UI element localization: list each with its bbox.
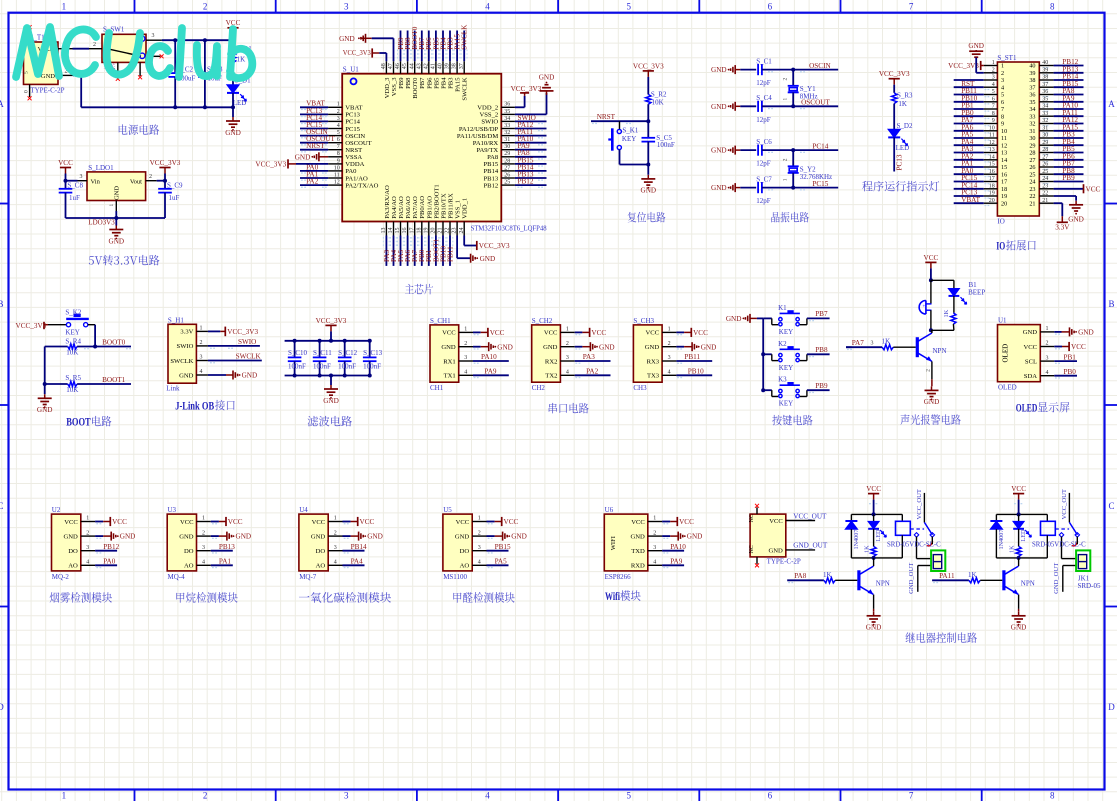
svg-text:BOOT: BOOT [66,417,91,429]
svg-text:VCC: VCC [312,519,326,526]
pin U1.35 VSS_2 [501,113,515,115]
pin U1.44 BOOT0 [414,61,416,73]
wire+net SWIO [515,120,547,122]
svg-text:PB2/BOOT1: PB2/BOOT1 [433,184,440,218]
capacitor S_C11 100nF [319,341,321,358]
wire+net PA1 left [954,166,984,168]
svg-text:12: 12 [1001,142,1007,149]
svg-text:2: 2 [992,67,995,73]
wire to net OSCOUT [762,105,838,107]
resistor 1K relay [873,529,875,547]
svg-text:OLED: OLED [1016,403,1038,415]
svg-text:15: 15 [395,228,401,234]
power GND for C1 [734,65,736,74]
svg-text:1: 1 [1046,326,1049,332]
svg-text:PC14: PC14 [812,142,828,150]
svg-text:2: 2 [464,341,467,347]
svg-text:9: 9 [1001,121,1004,128]
relay top rail [851,513,902,515]
pin ST1.14 [984,159,998,161]
svg-text:PB10: PB10 [688,368,704,376]
svg-text:3: 3 [344,791,349,801]
svg-text:21: 21 [1042,198,1048,204]
CH3 VCC port [676,331,684,333]
svg-text:30: 30 [1029,135,1035,142]
svg-text:GND: GND [441,344,456,351]
pin ST1.18 [984,188,998,190]
U2 net PB12 [95,550,117,552]
svg-text:VCC_3V3: VCC_3V3 [316,317,347,325]
base chain PA11 [932,579,969,581]
wire U1 pin36 to VCC_3V3 [515,106,525,108]
svg-text:BOOT1: BOOT1 [102,376,126,384]
wire+net BOOT0 [414,31,416,62]
caption 滤波电路 [308,416,352,427]
svg-text:1: 1 [782,178,788,181]
svg-text:GND: GND [1078,329,1094,337]
key K3 [763,389,772,391]
svg-text:1: 1 [62,791,67,801]
relay coil [901,514,903,521]
svg-text:PB7: PB7 [419,77,426,89]
ground GND boot [44,384,46,394]
svg-text:LDO3V3: LDO3V3 [88,219,115,227]
svg-text:VCC_3V3: VCC_3V3 [948,62,979,70]
OLED SDA -> PB0 [1054,375,1077,377]
svg-text:SRD-05VDC-SL-C: SRD-05VDC-SL-C [1032,541,1086,548]
svg-text:PA12/USB/DP: PA12/USB/DP [459,126,499,133]
svg-text:S_C1: S_C1 [756,58,772,66]
svg-text:10: 10 [1001,128,1007,135]
wire VCC rail top [162,39,233,41]
svg-text:KEY: KEY [779,328,793,336]
pin U1.22 PB11/RX [449,222,451,236]
pin U1.37 SWCLK [463,61,465,73]
wire+net PB9 [400,31,402,62]
svg-text:VSS_3: VSS_3 [391,77,398,96]
svg-text:PB12: PB12 [518,178,534,186]
power GND for C4 [734,102,736,111]
svg-text:VBAT: VBAT [961,196,980,204]
svg-text:S_C6: S_C6 [756,138,772,146]
pin ST1.12 [984,144,998,146]
svg-text:VCC_3V3: VCC_3V3 [227,328,258,336]
pin U1.27 PB14 [501,170,515,172]
svg-text:GND: GND [1068,216,1084,224]
svg-text:SRD-05: SRD-05 [1078,582,1101,590]
svg-text:NC: NC [749,545,755,553]
caption 晶振电路 [771,212,808,223]
wire+net PB14 [515,170,547,172]
wire+net PA5 left [954,137,984,139]
capacitor S_C13 100nF [369,341,371,358]
connector TYPE-C-2P relay input [750,514,786,557]
svg-text:VCC_3V3: VCC_3V3 [343,49,371,57]
svg-text:2: 2 [1001,70,1004,77]
wire+net PA4 [393,236,395,266]
svg-text:PA3: PA3 [583,353,596,361]
pin ST1.35 [1039,101,1053,103]
svg-text:SCL: SCL [1025,358,1037,365]
relay bottom rail [996,557,1047,559]
svg-text:PC13: PC13 [345,112,360,119]
svg-text:22: 22 [1042,191,1048,197]
wire+net PB10 left [954,101,984,103]
svg-text:3: 3 [668,355,671,361]
pin U1.38 PA15 [456,61,458,73]
pin ST1.26 [1039,166,1053,168]
wire+net PB1 left [954,108,984,110]
capacitor C1 12pF [740,69,756,71]
svg-text:3: 3 [1046,355,1049,361]
svg-text:10K: 10K [66,386,78,394]
buzzer B1 BEEP [925,301,927,315]
wire+net BOOT1 [435,236,437,266]
wire+net PA2 left [954,159,984,161]
pin U1.15 PA5/AO [400,222,402,236]
svg-text:U3: U3 [168,506,177,514]
svg-text:GND: GND [641,187,657,195]
svg-text:3: 3 [653,545,656,551]
svg-text:D: D [1108,702,1115,712]
svg-text:1K: 1K [863,545,870,553]
svg-text:100nF: 100nF [657,141,675,149]
svg-text:GND: GND [480,255,496,263]
resistor 1K alarm vertical [953,296,955,313]
svg-text:S_CH1: S_CH1 [430,317,451,325]
caption 电源电路 [119,124,159,135]
svg-text:6: 6 [768,2,773,12]
power VCC IO pin23 [1054,188,1084,190]
caption 一氧化碳检测模块 [299,592,391,603]
svg-text:VCC_3V3: VCC_3V3 [150,159,181,167]
SW1 bottom pins unconnected [117,62,119,77]
svg-text:+: + [923,304,926,309]
module U5 MS1100 [443,514,472,571]
pin U1.12 PA2/TX/AO [328,184,342,186]
wire+net PB10 [442,236,444,266]
svg-text:S_U1: S_U1 [343,66,359,74]
svg-text:PB12: PB12 [103,543,119,551]
resistor 1K relay [1018,529,1020,547]
svg-text:S_K2: S_K2 [65,308,81,316]
svg-text:VCC: VCC [1023,344,1037,351]
svg-text:VCC: VCC [58,159,73,167]
svg-text:4: 4 [202,560,205,566]
svg-text:PB8: PB8 [815,346,828,354]
svg-text:GND: GND [497,343,513,351]
svg-text:6: 6 [1001,99,1004,106]
wire U1 pin23 VSS_1 to GND [456,236,458,259]
svg-text:VCC: VCC [866,485,881,493]
watermark MCUclub [16,27,252,78]
svg-text:PB10/TX: PB10/TX [441,193,448,219]
buzzer to lower node [930,310,932,330]
module U3 MQ-4 [167,514,196,571]
svg-text:26: 26 [504,172,510,178]
svg-text:100nF: 100nF [338,363,356,371]
power VCC relay [868,493,879,495]
pin ST1.10 [984,130,998,132]
svg-text:VCC: VCC [456,519,470,526]
U4 net PA4 [343,564,365,566]
wire+net PB11 left [954,94,984,96]
svg-text:4: 4 [485,2,490,12]
svg-text:36: 36 [504,102,510,108]
svg-text:32: 32 [504,130,510,136]
wire+net PC13 left [954,195,984,197]
capacitor S_C2 100uF [174,40,176,73]
svg-text:OSCIN: OSCIN [345,133,365,140]
OLED GND port [1054,331,1061,333]
svg-text:PA5: PA5 [495,558,508,566]
resistor S_R2 10K [646,94,651,104]
wire+net VBAT [300,106,328,108]
pin ST1.23 [1039,188,1053,190]
power gnd at U1 pin8 [318,152,320,161]
pin ST1.27 [1039,159,1053,161]
power GND right of chip [546,91,548,95]
pin U1.39 PB3 [449,61,451,73]
wire+net PC14 [300,120,328,122]
svg-text:ESP8266: ESP8266 [605,573,632,581]
svg-text:23: 23 [1042,183,1048,189]
svg-text:16: 16 [1001,171,1007,178]
svg-text:18: 18 [989,183,995,189]
svg-text:PB13: PB13 [484,175,499,182]
svg-text:S_K1: S_K1 [622,127,638,135]
svg-text:4: 4 [334,560,337,566]
capacitor S_C3 10uF [204,40,206,73]
svg-text:GND: GND [711,147,727,155]
svg-text:1: 1 [1001,63,1004,70]
svg-text:3: 3 [344,2,349,12]
pin ST1.1 [984,65,998,67]
power 3.3V IO pin21 [1054,202,1063,204]
svg-text:S_R4: S_R4 [65,337,81,345]
svg-text:12pF: 12pF [756,197,771,205]
svg-text:GND: GND [645,344,660,351]
svg-text:LED: LED [1020,529,1027,542]
relay switch common VCC_OUT [1068,493,1070,523]
svg-text:LED: LED [875,529,882,542]
power VCC_3V3 reset [643,70,654,72]
power VCC_3V3 indicator [889,78,900,80]
pin ST1.29 [1039,144,1053,146]
pin U1.46 PB9 [400,61,402,73]
svg-text:24: 24 [1042,176,1048,182]
net label NRST + wire [591,120,648,122]
svg-text:GND: GND [924,398,940,406]
svg-text:1: 1 [464,327,467,333]
wire+net PA8 right [1054,94,1084,96]
wire+net RST left [954,86,984,88]
svg-text:14: 14 [388,228,394,234]
svg-text:21: 21 [1029,200,1035,207]
svg-text:1: 1 [992,60,995,66]
svg-text:14: 14 [989,154,995,160]
svg-text:16: 16 [989,169,995,175]
pin U1.40 PB4 [442,61,444,73]
svg-text:VCC_3V3: VCC_3V3 [511,85,542,93]
collector wire [873,558,875,566]
wire+net PB3 [449,31,451,62]
svg-text:MS1100: MS1100 [443,573,467,581]
svg-text:PC14: PC14 [345,119,360,126]
svg-text:1: 1 [782,98,788,101]
svg-text:U6: U6 [605,506,614,514]
svg-text:U5: U5 [443,506,452,514]
wire+net PB12 [515,184,547,186]
wire+net PA6 [407,236,409,266]
svg-text:VCC: VCC [64,519,78,526]
svg-text:VDD_1: VDD_1 [462,198,469,219]
wire+net PA11 right [1054,115,1084,117]
U6 net PA9 [662,564,684,566]
power VCC_3V3 at U1 pin9 [287,159,289,168]
svg-text:3: 3 [334,545,337,551]
svg-text:15: 15 [1001,164,1007,171]
svg-text:PA2/TX/AO: PA2/TX/AO [345,182,378,189]
transistor NPN alarm [916,337,919,357]
svg-text:PB4: PB4 [441,77,448,89]
wire U1 pin35 to GND [515,113,547,115]
svg-text:1: 1 [334,516,337,522]
svg-text:KEY: KEY [622,135,636,143]
svg-text:44: 44 [409,63,415,69]
svg-text:34: 34 [504,116,510,122]
pin ST1.20 [984,202,998,204]
pin ST1.37 [1039,86,1053,88]
svg-text:AO: AO [316,563,326,570]
svg-text:5: 5 [992,89,995,95]
svg-text:VCC_3V3: VCC_3V3 [879,70,910,78]
key S_K2 [48,324,66,326]
svg-text:39: 39 [445,63,451,69]
pin U1.6 OSCOUT [328,142,342,144]
wire U1 pin24 VDD_1 to VCC_3V3 [463,236,465,246]
svg-text:GND_OUT: GND_OUT [1053,563,1060,594]
svg-text:4: 4 [992,82,995,88]
pin U1.21 PB10/TX [442,222,444,236]
CH3 TX3 -> PB10 [676,374,712,376]
svg-text:17: 17 [1001,179,1007,186]
green terminal block [931,550,945,571]
svg-text:PB0/AO: PB0/AO [419,196,426,219]
svg-text:4: 4 [1001,85,1004,92]
collector wire [1018,558,1020,566]
svg-text:BOOT0: BOOT0 [412,77,419,99]
svg-text:VSS_2: VSS_2 [479,112,498,119]
pin U1.34 SWIO [501,120,515,122]
OLED SCL -> PB1 [1054,360,1077,362]
wire+net PA0 [300,170,328,172]
svg-text:S_C9: S_C9 [167,182,183,190]
svg-text:TXD: TXD [631,548,645,555]
svg-text:GND: GND [109,237,125,245]
pin U1.18 PB0/AO [421,222,423,236]
wire+net PB13 [515,177,547,179]
svg-text:RXD: RXD [631,563,645,570]
pin U1.1 VBAT [328,106,342,108]
svg-text:WIFI: WIFI [610,536,617,550]
svg-text:27: 27 [1042,154,1048,160]
svg-text:PB9: PB9 [398,77,405,89]
svg-text:GND: GND [242,372,258,380]
svg-text:33: 33 [1042,111,1048,117]
wire+net PB13 right [1054,72,1084,74]
svg-text:MQ-4: MQ-4 [168,573,186,581]
svg-text:STM32F103C8T6_LQFP48: STM32F103C8T6_LQFP48 [471,225,547,233]
svg-text:7: 7 [909,2,914,12]
svg-text:42: 42 [423,63,429,69]
svg-text:DO: DO [184,548,194,555]
svg-text:43: 43 [416,63,422,69]
svg-text:SDA: SDA [1024,373,1037,380]
module U4 MQ-7 [299,514,328,571]
svg-text:33: 33 [1029,114,1035,121]
power GND keys [749,314,751,323]
base chain PA8 [787,579,824,581]
svg-text:3.3V: 3.3V [180,329,193,336]
relay NO contact stub [931,537,933,545]
caption 复位电路 [628,212,666,223]
svg-text:PA9: PA9 [484,368,497,376]
relay NC contact to terminal [916,537,918,559]
pin U1.11 PA1/AO [328,177,342,179]
wire+net PB4 [442,31,444,62]
svg-text:1: 1 [478,516,481,522]
U6 VCC port [662,521,670,523]
svg-text:31: 31 [1042,125,1048,131]
svg-text:4: 4 [86,560,89,566]
wire+net PB15 right [1054,86,1084,88]
resistor S_R4 10K [45,346,68,348]
svg-text:4: 4 [653,560,656,566]
wire+net PA12 [515,128,547,130]
U3 GND port [211,535,219,537]
svg-text:29: 29 [504,151,510,157]
pin ST1.33 [1039,115,1053,117]
pin ST1.36 [1039,94,1053,96]
svg-text:8: 8 [1001,114,1004,121]
pin U1.20 PB2/BOOT1 [435,222,437,236]
svg-text:PA1: PA1 [219,558,232,566]
pin U1.48 VDD_3 [385,61,387,73]
module U6 ESP8266 [604,514,648,571]
green terminal block [1076,550,1090,571]
caption 主芯片 [405,284,433,295]
svg-text:2: 2 [782,158,788,161]
svg-text:S_C11: S_C11 [313,349,332,357]
svg-text:GND: GND [711,66,727,74]
svg-text:VCC_OUT: VCC_OUT [1061,489,1068,519]
pin LDO1.2 [146,180,157,182]
svg-text:GND: GND [455,533,470,540]
svg-text:19: 19 [1001,193,1007,200]
svg-text:GND: GND [339,35,355,43]
pin U1.17 PA7/AO [414,222,416,236]
svg-text:PB15: PB15 [484,161,499,168]
wire H1.1 to VCC_3V3 [208,330,220,332]
svg-text:PA6/AO: PA6/AO [405,196,412,219]
U2 net PA0 [95,564,117,566]
pin U1.13 PA3/RX/AO [385,222,387,236]
svg-text:1: 1 [566,327,569,333]
OLED VCC port [1054,346,1062,348]
wire T1.2 to rail [73,74,81,76]
pin ST1.6 [984,101,998,103]
